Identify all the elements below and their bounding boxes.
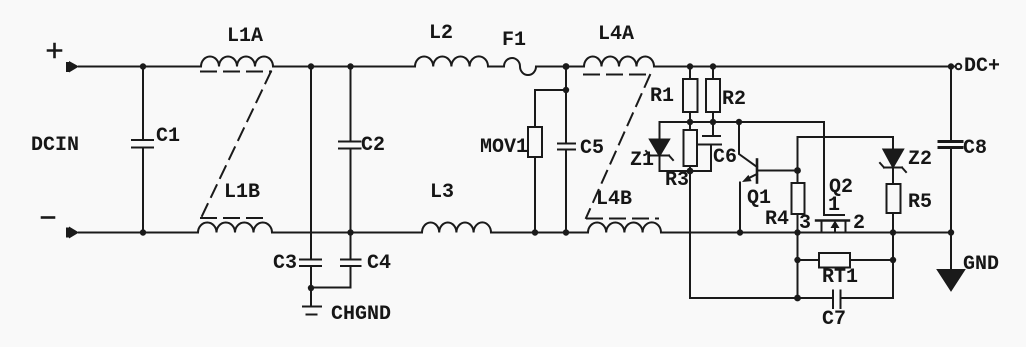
capacitor C5 [558, 67, 575, 233]
node R3 bottom junction [687, 168, 694, 175]
mosfet Q2 [824, 214, 844, 216]
node Q1 collector junction [736, 119, 742, 125]
node bottom-rail R4 junction [794, 229, 800, 235]
thermistor RT1 [798, 259, 894, 261]
resistor R3 [689, 122, 691, 130]
capacitor C6 [699, 122, 721, 171]
node RT1 left junction [794, 257, 800, 263]
node RT1 right junction [890, 257, 896, 263]
wire R3 node down to C7 line [689, 171, 691, 298]
inductor L4A [584, 57, 654, 67]
inductor L1A [201, 57, 273, 67]
svg-text:F1: F1 [502, 29, 526, 52]
node bottom-rail MOV1 junction [532, 229, 538, 235]
node top-rail C2 junction [347, 63, 353, 69]
svg-text:L4A: L4A [598, 23, 634, 46]
svg-text:R4: R4 [765, 208, 789, 231]
svg-text:R1: R1 [650, 85, 674, 108]
svg-text:C1: C1 [156, 125, 180, 148]
ground CHGND [303, 288, 321, 315]
svg-text:C4: C4 [367, 252, 391, 275]
svg-text:C5: C5 [580, 137, 604, 160]
inductor L4B [588, 222, 661, 232]
svg-text:L1B: L1B [224, 181, 260, 204]
wire Q1 base line [757, 170, 798, 172]
capacitor C2 [339, 67, 361, 233]
svg-text:Z1: Z1 [630, 149, 654, 172]
svg-text:1: 1 [828, 194, 840, 217]
terminal DC+ [956, 64, 962, 70]
svg-text:CHGND: CHGND [331, 303, 391, 326]
wire MOV1 branch [535, 90, 566, 127]
node bottom-rail GND junction [948, 229, 954, 235]
svg-text:Q1: Q1 [747, 187, 771, 210]
svg-text:3: 3 [799, 212, 811, 235]
svg-text:DCIN: DCIN [31, 134, 79, 157]
node bottom-rail C5 junction [563, 229, 569, 235]
node bottom-rail R5 junction [890, 229, 896, 235]
input terminal - arrow [66, 227, 79, 239]
svg-text:Z2: Z2 [908, 148, 932, 171]
core L1 dashed bars and diagonal [201, 71, 271, 73]
capacitor C1 [132, 67, 153, 233]
fuse F1 [504, 58, 536, 75]
svg-text:C8: C8 [963, 137, 987, 160]
node F1 output junction [563, 63, 570, 70]
node bottom-rail C1 junction [140, 229, 146, 235]
svg-text:L3: L3 [430, 181, 454, 204]
node C7 left junction [794, 295, 801, 302]
ground GND arrow [950, 233, 952, 271]
capacitor C4 [311, 233, 361, 288]
svg-text:GND: GND [963, 253, 999, 276]
node Q1 base / R4 junction [794, 167, 801, 174]
node top-rail C1 junction [140, 63, 146, 69]
node top-rail R1 junction [687, 63, 693, 69]
capacitor C3 [300, 260, 321, 289]
svg-text:RT1: RT1 [822, 266, 858, 289]
svg-text:R2: R2 [722, 88, 746, 111]
svg-text:L1A: L1A [227, 25, 263, 48]
varistor MOV1 [528, 127, 542, 157]
svg-text:MOV1: MOV1 [480, 136, 528, 159]
zener Z1 [659, 122, 661, 140]
wire top rail [79, 66, 956, 68]
inductor L3 [422, 222, 491, 232]
label + [48, 44, 61, 57]
svg-text:2: 2 [853, 212, 865, 235]
core L4 dashed bars and diagonal [584, 74, 652, 76]
wire R5 column below rail [892, 233, 894, 299]
node MOV1 tap junction [563, 87, 569, 93]
svg-text:L4B: L4B [596, 188, 632, 211]
svg-text:C2: C2 [361, 134, 385, 157]
wire R4 column below rail [797, 233, 799, 299]
resistor R1 [689, 67, 691, 80]
node R1 bottom junction [687, 119, 693, 125]
transistor Q1 [739, 122, 757, 167]
wire Z1/R3/C6 bottom node [660, 170, 712, 172]
svg-text:R3: R3 [665, 169, 689, 192]
resistor R5 [887, 184, 901, 213]
svg-text:DC+: DC+ [964, 55, 1000, 78]
svg-text:C7: C7 [822, 308, 846, 331]
capacitor C7 [690, 291, 893, 309]
wire C3 column from top rail [310, 67, 312, 260]
svg-text:C6: C6 [713, 146, 737, 169]
capacitor C8 [939, 67, 962, 233]
resistor R4 [797, 171, 799, 184]
node top-rail R2 junction [710, 63, 716, 69]
svg-text:R5: R5 [908, 191, 932, 214]
wire control line A [660, 122, 825, 215]
resistor R2 [712, 67, 714, 80]
wire bottom rail [79, 232, 953, 234]
input terminal + arrow [66, 61, 79, 73]
node bottom-rail Q1 emitter junction [737, 229, 743, 235]
node C3/C4 ground junction [308, 285, 314, 291]
node top-rail C3 column junction [308, 63, 314, 69]
node R2/C6 junction [710, 119, 716, 125]
inductor L2 [415, 56, 488, 66]
node bottom-rail C2/C4 junction [347, 229, 353, 235]
svg-text:L2: L2 [429, 22, 453, 45]
svg-text:C3: C3 [273, 252, 297, 275]
inductor L1B [198, 223, 272, 233]
zener Z2 [884, 150, 904, 168]
wire control line B to Z2 [798, 137, 894, 171]
label - [42, 216, 54, 219]
node top-rail C8/DC+ junction [948, 63, 954, 69]
